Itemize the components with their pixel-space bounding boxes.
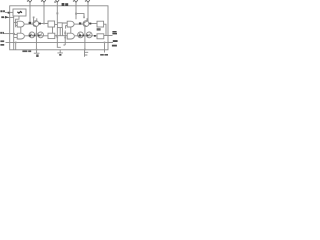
gate G4 <box>67 33 74 39</box>
junction dot B2b out <box>56 35 58 37</box>
junction blob G2 out <box>29 35 31 37</box>
junction dot GND1 top <box>36 49 38 51</box>
wire Q3 emitter junction <box>89 23 97 25</box>
block B4 <box>97 21 104 27</box>
label pin y33 text <box>0 32 2 34</box>
junction dot Q4 right <box>87 35 89 37</box>
block B5 <box>97 34 104 39</box>
gate G1 <box>17 21 24 27</box>
terminal Y x57 <box>56 0 60 2</box>
wire Q1 base riser <box>33 17 35 21</box>
wire V52 <box>52 27 54 33</box>
label right pin R2 arrow <box>112 45 117 47</box>
junction dot x44 wire <box>43 23 45 25</box>
gate G3 <box>67 21 74 27</box>
terminal Y x44 <box>42 0 46 2</box>
input pin wire left y17.5 <box>5 16 14 18</box>
wire rail drop x15.7 <box>15 42 17 49</box>
junction dot x104 bus <box>104 42 106 44</box>
wire G4 output <box>75 35 97 37</box>
wire G1 to G2 coupling <box>20 27 22 33</box>
mark inside B1 <box>17 12 22 14</box>
wire V62 <box>62 28 64 36</box>
junction dot x15.7 bus <box>15 42 17 44</box>
transistor Q1 <box>33 21 39 27</box>
wire Q1 emitter junction <box>39 23 48 25</box>
wire pin R1 <box>104 35 113 37</box>
junction dot x65 y33 <box>64 32 66 34</box>
junction blob G3 out <box>79 22 81 24</box>
pin tick x88 <box>85 0 86 2</box>
wire G3 inputs <box>62 23 67 29</box>
label right pin R1 text <box>112 31 116 33</box>
wire pin76 branch to Q3 <box>76 14 84 18</box>
junction dot rail pinC <box>13 33 15 35</box>
wire B4 out bend <box>104 24 106 35</box>
ground GND1 <box>34 50 40 53</box>
wire top pin stub x30 <box>29 2 31 22</box>
wire G2 output <box>25 35 48 37</box>
junction blob G1 out <box>29 22 32 24</box>
wire B2 to B3 <box>55 23 58 25</box>
pin tick x44 <box>41 0 42 2</box>
input pin wire left y12 <box>5 11 13 13</box>
gate G2 <box>17 33 24 39</box>
wire bottom pin x104 <box>104 42 106 52</box>
wire Q3 collector stub <box>86 18 88 21</box>
transistor Q4a <box>78 32 84 38</box>
transistor Q4b <box>86 32 92 38</box>
wire right pin exit <box>108 41 112 43</box>
wire V60 <box>59 28 61 36</box>
transistor Q2b <box>38 32 44 38</box>
terminal dot pin1 <box>8 12 10 14</box>
junction dot x57 y13 <box>56 12 58 14</box>
terminal Y x76 <box>74 0 78 2</box>
junction dot Q1 base top <box>33 17 35 19</box>
label bottom left text <box>22 50 27 52</box>
wire Q1 collector stub <box>36 18 38 21</box>
junction dot x76 y13 <box>75 13 77 15</box>
wire top pin stub x57 <box>56 1 58 23</box>
junction dot C1 top <box>84 49 86 51</box>
block B2 <box>48 21 55 27</box>
junction dot Q2 right <box>38 35 40 37</box>
pin tick x30 <box>27 0 28 2</box>
junction dot x65 y37 <box>64 37 66 39</box>
terminal Y x88 <box>86 0 90 2</box>
wire G1 output <box>24 23 33 25</box>
IC outline box <box>10 6 108 50</box>
wire top pin stub x88 <box>87 2 89 22</box>
wire top pin stub x76 <box>75 2 77 20</box>
label IN2 text <box>1 16 4 18</box>
wire B1 bottom <box>16 16 19 27</box>
junction dot V57 <box>57 37 59 39</box>
input pin wire left y33.5 <box>4 33 16 35</box>
wire G2 inputs <box>14 35 18 38</box>
wire V65 <box>63 31 65 46</box>
pin tick x57 <box>54 1 55 3</box>
transistor Q2a <box>29 32 35 38</box>
junction dot Q2 left <box>34 35 36 37</box>
capacitor C1 <box>85 50 89 57</box>
wire G3 output <box>74 23 83 25</box>
wire G3 to G4 coupling <box>70 27 72 33</box>
junction dot Q4 left <box>82 35 84 37</box>
oscillator block B1 <box>13 9 26 16</box>
transistor Q3 <box>83 21 89 27</box>
ground GND2 <box>57 50 63 53</box>
label VCC blob <box>62 3 65 6</box>
pin tick x76 <box>73 0 74 2</box>
wire B2b out <box>55 35 67 37</box>
block B3 <box>57 23 62 28</box>
junction dot B5 in <box>94 35 96 37</box>
label under B4 <box>97 28 101 30</box>
junction dot Q3 base top <box>83 17 85 19</box>
wire V36 <box>35 27 37 50</box>
internal bus wire <box>6 41 114 43</box>
wire V86 <box>84 27 86 50</box>
label right pin R2 text <box>113 40 118 42</box>
internal left rail <box>13 16 15 50</box>
label IN1 text <box>0 10 2 12</box>
wire G1 inputs <box>14 23 18 26</box>
label pin y42 line2 <box>0 44 4 46</box>
wire V57 <box>57 28 61 48</box>
terminal Y x30 <box>28 0 32 2</box>
block B2b <box>48 33 55 38</box>
junction blob Q1 emitter <box>39 23 41 25</box>
junction blob Q3 emitter <box>89 23 91 25</box>
terminal arrow pin2 <box>5 16 9 19</box>
label bottom x104 text <box>100 54 104 56</box>
wire top pin stub x44 <box>43 2 45 24</box>
label pin y42 line1 <box>0 40 4 42</box>
junction dot x36 y33 <box>36 33 38 35</box>
junction blob G4 out <box>79 35 81 37</box>
